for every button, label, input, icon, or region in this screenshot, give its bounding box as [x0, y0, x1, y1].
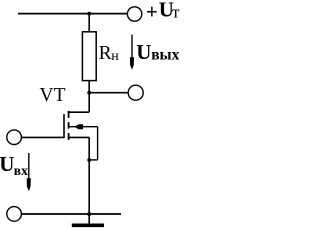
arrow: U вх input voltage — [28, 153, 30, 179]
svg-text:вых: вых — [151, 47, 179, 64]
wire: drain stub — [69, 111, 90, 113]
wire: bottom rail — [21, 213, 121, 215]
transistor VT: bulk channel bar — [68, 122, 70, 128]
wire: resistor bottom lead — [88, 81, 90, 93]
wire: drain vertical — [88, 93, 90, 113]
wire: bulk to source connector — [89, 159, 97, 161]
wire: resistor top lead — [88, 14, 90, 32]
transistor VT: drain channel bar — [68, 111, 70, 118]
terminal: +U supply — [127, 7, 141, 21]
svg-text:+: + — [146, 0, 158, 24]
wire: bulk line — [69, 126, 98, 128]
transistor VT: gate bar — [63, 114, 65, 138]
svg-text:R: R — [99, 43, 112, 64]
node: drain junction — [87, 91, 91, 95]
wire: gate lead — [21, 136, 64, 138]
bulk arrow (points to channel) — [74, 124, 83, 129]
wire: output wire to terminal — [89, 92, 128, 94]
svg-text:вх: вх — [14, 163, 28, 178]
svg-text:U: U — [0, 152, 14, 176]
ground bar — [72, 223, 104, 227]
wire: bulk vertical — [97, 127, 99, 160]
node: source junction — [87, 158, 91, 162]
node: supply junction — [87, 12, 91, 16]
svg-text:VT: VT — [40, 85, 66, 106]
wire: source vertical down to ground — [88, 137, 90, 223]
resistor RН body — [82, 32, 96, 81]
wire: source stub — [69, 136, 90, 138]
transistor VT: source channel bar — [68, 133, 70, 140]
terminal: lower input common — [7, 207, 22, 222]
svg-text:т: т — [172, 3, 180, 22]
svg-text:U: U — [136, 40, 151, 64]
svg-text:н: н — [111, 49, 119, 64]
wire: +U supply top rail — [18, 13, 128, 15]
terminal: input — [7, 130, 22, 145]
arrow: U вых output voltage — [131, 35, 133, 59]
node: ground junction — [87, 212, 91, 216]
terminal: output — [128, 85, 143, 100]
